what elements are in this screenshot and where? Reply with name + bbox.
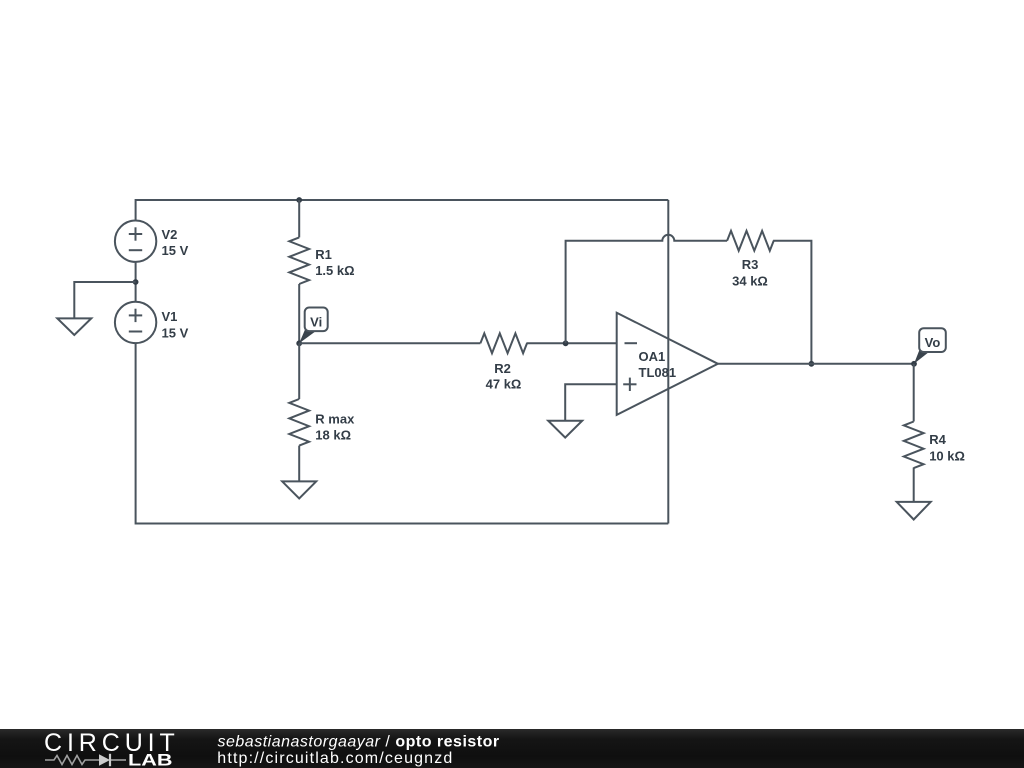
op-amp OA1 triangle [617, 313, 718, 415]
svg-text:Vi: Vi [310, 314, 322, 329]
svg-text:OA1: OA1 [639, 349, 666, 364]
ground symbol at op-amp plus input [548, 421, 582, 438]
ground symbol below R max [282, 481, 316, 498]
node Vi flag pointer [299, 329, 315, 343]
svg-text:1.5 kΩ: 1.5 kΩ [315, 263, 354, 278]
svg-text:LAB: LAB [128, 750, 173, 768]
label R4 10 kOhm [929, 432, 965, 464]
svg-text:V2: V2 [162, 227, 178, 242]
svg-text:V1: V1 [162, 309, 178, 324]
node Vi label box [305, 308, 328, 332]
ground symbol left [57, 318, 91, 335]
resistor R max [289, 343, 309, 481]
label V1 15 V [162, 309, 189, 340]
svg-text:http://circuitlab.com/ceugnzd: http://circuitlab.com/ceugnzd [217, 750, 453, 767]
label R1 1.5 kOhm [315, 247, 354, 278]
junction dot between V2 and V1 [133, 279, 139, 285]
wire op-amp plus input to ground [565, 384, 617, 420]
svg-text:R max: R max [315, 412, 355, 427]
svg-text:sebastianastorgaayar / opto re: sebastianastorgaayar / opto resistor [218, 734, 500, 751]
wire bottom rail [136, 343, 669, 524]
node Vo flag pointer [914, 349, 929, 364]
op-amp plus input sign [623, 378, 636, 391]
junction dot top rail to R1 [296, 197, 302, 203]
voltage source V1 [115, 302, 156, 343]
op-amp minus input sign [625, 342, 638, 344]
wire Vi to R2 [299, 342, 480, 344]
svg-text:R1: R1 [315, 247, 332, 262]
feedback wire with hop over power rail [566, 235, 728, 343]
svg-text:R4: R4 [929, 432, 946, 447]
resistor R1 [289, 200, 309, 343]
node Vo label box [919, 328, 946, 352]
node Vo junction dot [911, 361, 917, 367]
ground symbol below R4 [897, 502, 931, 520]
voltage source V2 [115, 221, 156, 262]
label R2 47 kOhm [486, 361, 522, 391]
label R max 18 kOhm [315, 412, 355, 443]
wire top rail [136, 200, 669, 221]
label R3 34 kOhm [732, 257, 768, 289]
svg-text:18 kΩ: 18 kΩ [315, 428, 351, 443]
label OA1 TL081 [639, 349, 677, 380]
svg-text:47 kΩ: 47 kΩ [486, 376, 522, 391]
svg-text:R3: R3 [742, 257, 759, 272]
svg-text:TL081: TL081 [639, 365, 677, 380]
wire R2 to inverting node [526, 342, 616, 344]
svg-text:Vo: Vo [925, 335, 941, 350]
wire R3 to output node [773, 241, 811, 364]
junction dot inverting input node [563, 340, 569, 346]
wire V2 to V1 [135, 262, 137, 302]
svg-text:R2: R2 [494, 361, 511, 376]
resistor R4 [904, 364, 924, 502]
svg-text:34 kΩ: 34 kΩ [732, 274, 768, 289]
label V2 15 V [162, 227, 189, 258]
node Vi junction dot [296, 340, 302, 346]
svg-text:15 V: 15 V [162, 243, 189, 258]
svg-text:15 V: 15 V [162, 325, 189, 340]
junction dot feedback to output [809, 361, 815, 367]
svg-text:10 kΩ: 10 kΩ [929, 448, 965, 463]
logo resistor and diode symbol [45, 756, 126, 765]
resistor R3 [727, 231, 774, 251]
op-amp power rail wire through triangle [667, 200, 669, 524]
wire op-amp output to Vo [718, 363, 914, 365]
resistor R2 [480, 333, 527, 353]
wire junction to ground left [74, 282, 135, 318]
